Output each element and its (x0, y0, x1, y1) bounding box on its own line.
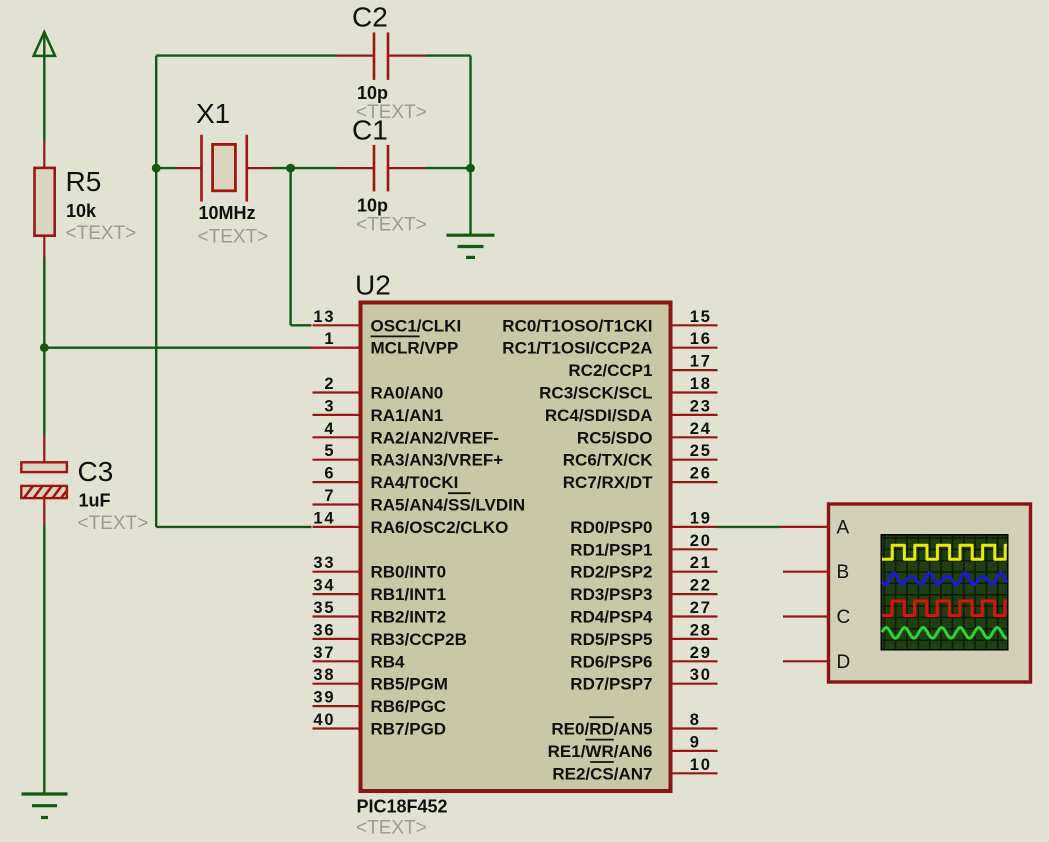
pin 39 stub (313, 705, 359, 707)
wire top left vertical (155, 56, 157, 169)
ground GND2 (447, 235, 495, 257)
svg-text:RC0/T1OSO/T1CKI: RC0/T1OSO/T1CKI (502, 316, 652, 335)
pin 14 stub (313, 526, 359, 528)
wire right rail to ground (469, 168, 471, 235)
svg-text:10k: 10k (66, 201, 97, 221)
pin 26 stub (673, 481, 718, 483)
svg-text:RC3/SCK/SCL: RC3/SCK/SCL (539, 384, 652, 403)
pin 36 stub (313, 638, 359, 640)
svg-text:X1: X1 (196, 98, 230, 129)
svg-text:A: A (837, 517, 850, 538)
pin 5 stub (313, 459, 359, 461)
C2 right lead (389, 54, 426, 56)
svg-text:28: 28 (690, 621, 712, 639)
svg-text:23: 23 (690, 397, 712, 415)
svg-text:RC6/TX/CK: RC6/TX/CK (563, 451, 653, 470)
scope pin C stub (783, 615, 829, 617)
wire pin19 to scope A (718, 526, 782, 528)
pin 1 stub (313, 347, 359, 349)
svg-text:39: 39 (313, 689, 335, 707)
svg-text:RD7/PSP7: RD7/PSP7 (570, 675, 652, 694)
svg-text:27: 27 (690, 599, 712, 617)
capacitor C2 (374, 32, 388, 80)
pin 19 stub (673, 526, 718, 528)
pin 15 stub (673, 324, 718, 326)
capacitor C1 (374, 145, 388, 192)
waveform channel C red square (882, 601, 1007, 616)
waveform channel A yellow square (882, 545, 1007, 559)
svg-text:40: 40 (313, 711, 335, 729)
capacitor C3 bottom plate (21, 486, 67, 498)
C1 left lead (336, 167, 373, 169)
wire C3 to ground (43, 525, 45, 794)
svg-text:RB7/PGD: RB7/PGD (371, 720, 447, 739)
pin 6 stub (313, 481, 359, 483)
power symbol VCC (34, 32, 55, 56)
svg-text:RB0/INT0: RB0/INT0 (371, 563, 447, 582)
svg-text:6: 6 (324, 465, 335, 483)
junction node xtal right (286, 164, 295, 173)
svg-text:3: 3 (324, 397, 335, 415)
wire top horizontal right (426, 54, 471, 56)
svg-text:U2: U2 (355, 269, 391, 300)
pin 37 stub (313, 660, 359, 662)
wire xtal to C1 (291, 167, 337, 169)
svg-text:5: 5 (324, 442, 335, 460)
svg-text:RE0/RD/AN5: RE0/RD/AN5 (551, 720, 652, 739)
svg-text:<TEXT>: <TEXT> (78, 513, 149, 534)
wire C1 to right rail (426, 167, 471, 169)
pin 9 stub (673, 750, 718, 752)
svg-text:RE2/CS/AN7: RE2/CS/AN7 (552, 764, 652, 783)
wire MCLR horizontal (44, 347, 311, 349)
svg-text:10p: 10p (357, 83, 388, 103)
capacitor C3 top plate (21, 462, 67, 472)
junction node xtal left (152, 164, 161, 173)
ground GND1 (22, 794, 68, 818)
pin 3 stub (313, 414, 359, 416)
pin name RE0/RD/AN5 (551, 717, 652, 738)
svg-text:RD6/PSP6: RD6/PSP6 (570, 652, 652, 671)
svg-text:25: 25 (690, 442, 712, 460)
svg-text:C2: C2 (352, 2, 388, 33)
svg-text:<TEXT>: <TEXT> (66, 223, 137, 244)
pin 18 stub (673, 391, 718, 393)
pin 40 stub (313, 727, 359, 729)
svg-text:D: D (837, 652, 851, 673)
pin 22 stub (673, 593, 718, 595)
svg-text:RA3/AN3/VREF+: RA3/AN3/VREF+ (371, 451, 504, 470)
waveform channel B blue sine (882, 573, 1007, 585)
svg-text:RA1/AN1: RA1/AN1 (371, 406, 444, 425)
svg-text:38: 38 (313, 666, 335, 684)
svg-text:15: 15 (690, 308, 712, 326)
junction node right rail (466, 164, 475, 173)
svg-text:7: 7 (324, 487, 335, 505)
pin name RE1/WR/AN6 (548, 740, 653, 761)
svg-text:RE1/WR/AN6: RE1/WR/AN6 (548, 742, 653, 761)
svg-text:C: C (837, 607, 851, 628)
pin 16 stub (673, 347, 718, 349)
svg-text:4: 4 (324, 420, 335, 438)
svg-text:10MHz: 10MHz (199, 203, 256, 223)
svg-text:RB1/INT1: RB1/INT1 (371, 585, 447, 604)
pin 33 stub (313, 571, 359, 573)
pin 24 stub (673, 436, 718, 438)
svg-text:RD1/PSP1: RD1/PSP1 (570, 540, 652, 559)
pin 35 stub (313, 615, 359, 617)
pin 2 stub (313, 391, 359, 393)
svg-text:1: 1 (324, 330, 335, 348)
svg-text:35: 35 (313, 599, 335, 617)
svg-text:RC5/SDO: RC5/SDO (577, 428, 653, 447)
pin 13 stub (313, 324, 359, 326)
svg-text:RB3/CCP2B: RB3/CCP2B (371, 630, 467, 649)
svg-text:1uF: 1uF (79, 490, 111, 510)
svg-text:37: 37 (313, 644, 335, 662)
svg-text:RA5/AN4/SS/LVDIN: RA5/AN4/SS/LVDIN (371, 496, 526, 515)
svg-text:RD4/PSP4: RD4/PSP4 (570, 608, 653, 627)
IC U2 PIC18F452 body (361, 303, 671, 792)
wire xtal left to pin14 (155, 168, 157, 527)
pin 29 stub (673, 660, 718, 662)
waveform channel D green sine (882, 628, 1007, 639)
wire VCC to R5 (43, 56, 45, 141)
junction node MCLR (40, 343, 49, 352)
svg-text:<TEXT>: <TEXT> (198, 226, 269, 247)
svg-text:R5: R5 (66, 166, 102, 197)
pin 25 stub (673, 459, 718, 461)
pin 4 stub (313, 436, 359, 438)
svg-text:C3: C3 (78, 456, 114, 487)
pin 8 stub (673, 727, 718, 729)
svg-text:C1: C1 (352, 115, 388, 146)
svg-text:RD0/PSP0: RD0/PSP0 (570, 518, 652, 537)
scope pin A stub (780, 526, 829, 528)
svg-text:21: 21 (690, 554, 712, 572)
svg-text:RD2/PSP2: RD2/PSP2 (570, 563, 652, 582)
svg-text:34: 34 (313, 577, 335, 595)
svg-text:RB2/INT2: RB2/INT2 (371, 608, 447, 627)
svg-text:RD5/PSP5: RD5/PSP5 (570, 630, 652, 649)
svg-text:RA0/AN0: RA0/AN0 (371, 384, 444, 403)
pin 21 stub (673, 571, 718, 573)
svg-text:20: 20 (690, 532, 712, 550)
svg-text:14: 14 (313, 509, 335, 527)
pin 17 stub (673, 369, 718, 371)
svg-text:RB4: RB4 (371, 652, 406, 671)
svg-text:26: 26 (690, 465, 712, 483)
svg-text:B: B (837, 562, 850, 583)
svg-text:17: 17 (690, 353, 712, 371)
wire node to C3 (43, 348, 45, 436)
C2 left lead (336, 54, 373, 56)
svg-text:24: 24 (690, 420, 712, 438)
wire right rail down (469, 56, 471, 169)
svg-text:RA6/OSC2/CLKO: RA6/OSC2/CLKO (371, 518, 509, 537)
svg-text:30: 30 (690, 666, 712, 684)
C3 top lead (43, 435, 45, 463)
wire top horizontal left (156, 54, 336, 56)
svg-text:2: 2 (324, 375, 335, 393)
pin 10 stub (673, 772, 718, 774)
C1 right lead (389, 167, 426, 169)
pin stub MCLR pin1 (311, 347, 361, 349)
svg-text:19: 19 (690, 509, 712, 527)
wire xtal right to pin13 (289, 168, 291, 325)
scope screen (881, 534, 1009, 651)
svg-text:RA2/AN2/VREF-: RA2/AN2/VREF- (371, 428, 499, 447)
svg-text:RD3/PSP3: RD3/PSP3 (570, 585, 652, 604)
svg-text:OSC1/CLKI: OSC1/CLKI (371, 316, 462, 335)
svg-text:PIC18F452: PIC18F452 (357, 796, 448, 816)
C3 bottom lead (43, 498, 45, 526)
pin name RA5/AN4/SS/LVDIN (371, 493, 526, 514)
svg-text:10p: 10p (357, 196, 388, 216)
svg-text:RB6/PGC: RB6/PGC (371, 697, 447, 716)
pin 28 stub (673, 638, 718, 640)
pin 30 stub (673, 683, 718, 685)
svg-text:RA4/T0CKI: RA4/T0CKI (371, 473, 459, 492)
pin 27 stub (673, 615, 718, 617)
svg-text:RC1/T1OSI/CCP2A: RC1/T1OSI/CCP2A (502, 339, 652, 358)
screen grid (882, 536, 1007, 650)
scope pin D stub (783, 660, 829, 662)
svg-text:8: 8 (690, 711, 701, 729)
svg-text:MCLR/VPP: MCLR/VPP (371, 339, 459, 358)
pin 38 stub (313, 683, 359, 685)
svg-text:<TEXT>: <TEXT> (356, 214, 427, 235)
svg-text:22: 22 (690, 577, 712, 595)
wire R5 to node A1 (43, 257, 45, 349)
svg-text:10: 10 (690, 756, 712, 774)
crystal X1 (202, 135, 247, 202)
svg-text:33: 33 (313, 554, 335, 572)
scope pin B stub (783, 571, 829, 573)
svg-text:29: 29 (690, 644, 712, 662)
wire R5 pin stubs (43, 141, 45, 168)
svg-text:RC7/RX/DT: RC7/RX/DT (563, 473, 653, 492)
svg-text:RC2/CCP1: RC2/CCP1 (568, 361, 652, 380)
pin 20 stub (673, 548, 718, 550)
pin name MCLR/VPP (371, 336, 459, 357)
svg-text:RC4/SDI/SDA: RC4/SDI/SDA (545, 406, 653, 425)
svg-text:16: 16 (690, 330, 712, 348)
svg-text:<TEXT>: <TEXT> (356, 817, 427, 838)
X1 right lead (248, 167, 274, 169)
pin 34 stub (313, 593, 359, 595)
X1 left lead (156, 167, 176, 169)
svg-text:9: 9 (690, 733, 701, 751)
resistor R5 (35, 168, 55, 236)
pin name RE2/CS/AN7 (552, 762, 652, 783)
svg-text:13: 13 (313, 308, 335, 326)
svg-text:RB5/PGM: RB5/PGM (371, 675, 448, 694)
svg-text:36: 36 (313, 621, 335, 639)
svg-text:18: 18 (690, 375, 712, 393)
pin 7 stub (313, 503, 359, 505)
pin 23 stub (673, 414, 718, 416)
oscilloscope body (829, 504, 1031, 682)
